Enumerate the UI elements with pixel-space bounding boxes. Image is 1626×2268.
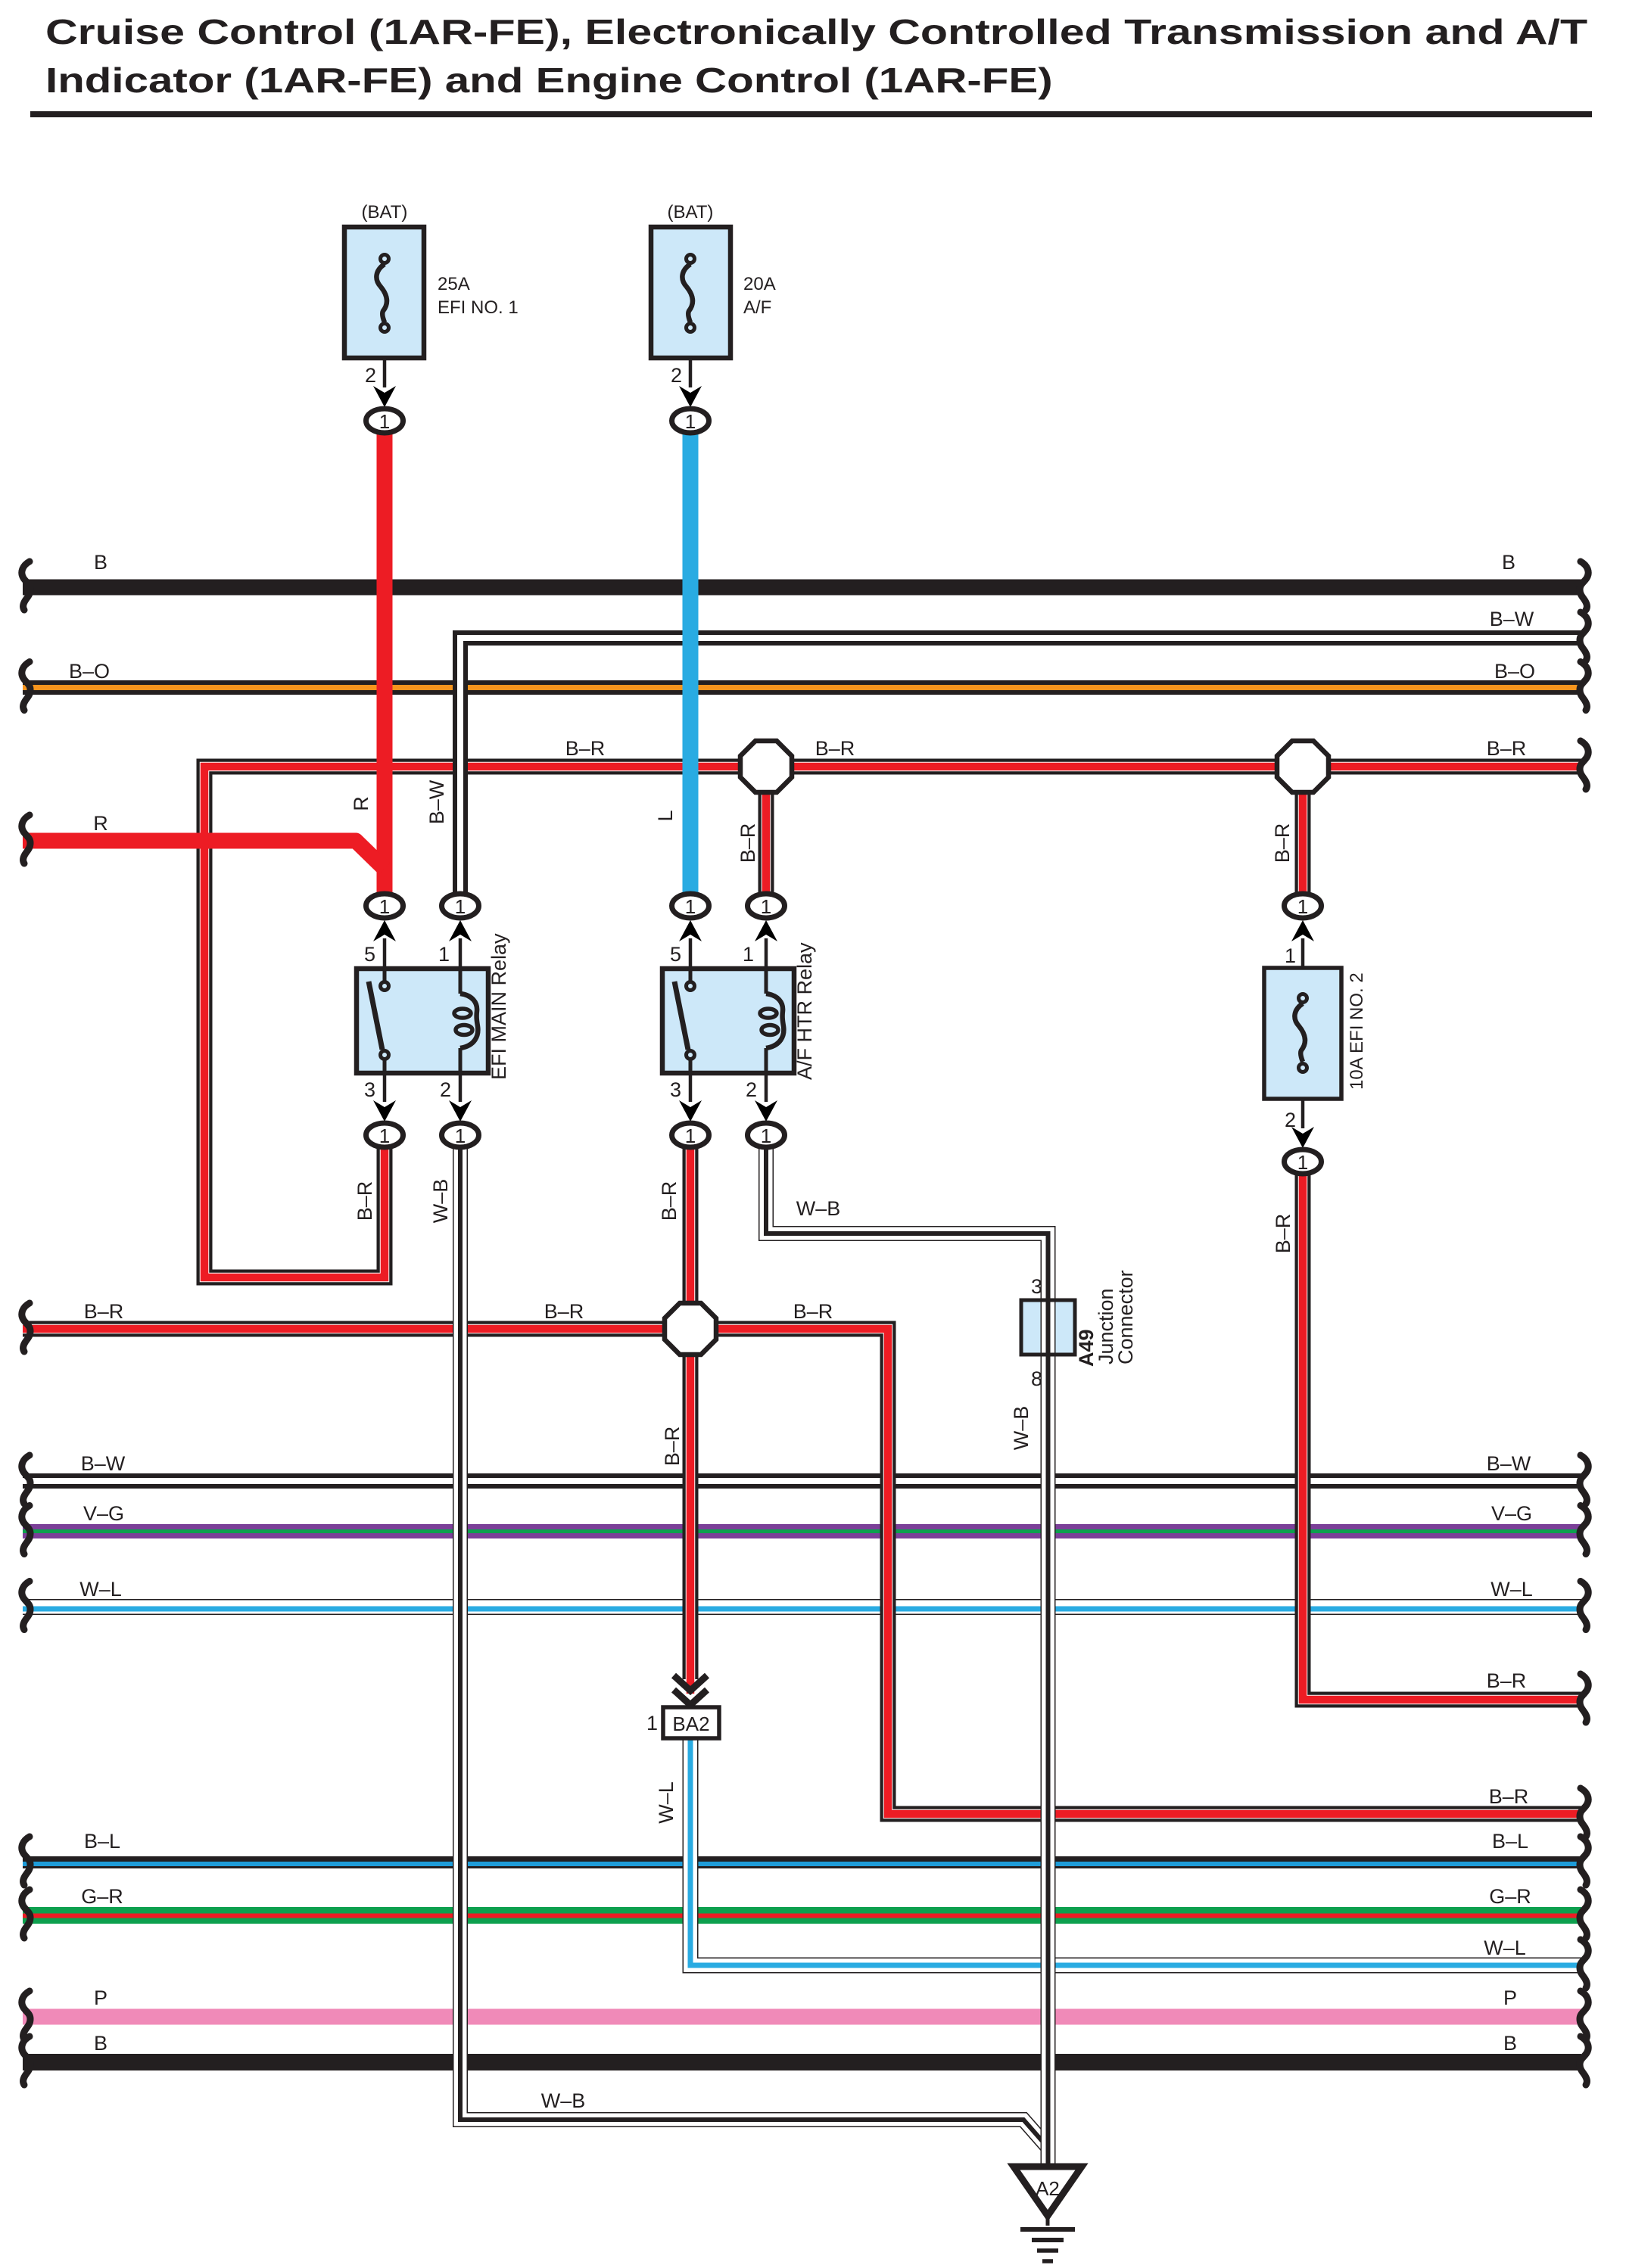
svg-text:(BAT): (BAT): [668, 202, 714, 222]
svg-text:B: B: [94, 2032, 107, 2055]
wire B-R fuse EFI NO.2 to right edge: [1303, 1171, 1581, 1700]
pin lines and arrows fuse1 output: [373, 358, 396, 407]
bus label W-L left: [79, 1578, 122, 1601]
svg-text:W–B: W–B: [1010, 1406, 1033, 1451]
bus label B bottom left: [94, 2032, 107, 2055]
svg-text:W–L: W–L: [1490, 1578, 1533, 1601]
junction connector A49 border redraw: [1021, 1300, 1075, 1355]
wire tag L rotated: [654, 810, 677, 821]
pin number labels fuse EFI NO.2: [1285, 944, 1296, 1131]
svg-text:B–R: B–R: [544, 1300, 584, 1323]
junction octagon 2: [1277, 741, 1329, 792]
wire R from fuse EFI NO.1 down to relay1 pin 5: [377, 432, 393, 897]
arrow into fuse EFI NO.2: [1291, 920, 1314, 968]
svg-text:B: B: [1502, 551, 1515, 574]
svg-text:8: 8: [1031, 1367, 1042, 1390]
bus label B-O right: [1494, 660, 1535, 683]
svg-text:B–W: B–W: [1490, 608, 1534, 630]
svg-text:1: 1: [1297, 1151, 1308, 1174]
pin lines and arrows fuse2 output: [679, 358, 702, 407]
bus label B-R 1 right: [1487, 737, 1527, 760]
svg-text:R: R: [93, 812, 108, 835]
svg-text:B–L: B–L: [1492, 1830, 1528, 1853]
svg-text:W–B: W–B: [796, 1197, 841, 1220]
wire tag B-R rotated relay1 pin3: [354, 1181, 376, 1221]
bus label R left: [93, 812, 108, 835]
bus label W-L right y2597: [1484, 1937, 1526, 1959]
bus label B-R right y2246: [1487, 1669, 1527, 1692]
svg-text:W–B: W–B: [429, 1179, 452, 1224]
svg-text:1: 1: [379, 1125, 390, 1147]
wire bus W-L: [23, 1607, 1581, 1610]
svg-text:BA2: BA2: [672, 1713, 709, 1735]
rotated name EFI MAIN Relay: [487, 933, 510, 1080]
label W-B bottom: [541, 2089, 586, 2112]
fuse 10A EFI NO.2: [1264, 968, 1341, 1099]
bus label B-R 2 right of octagon: [793, 1300, 833, 1323]
connector ovals row: relay bottom side: [366, 1123, 785, 1147]
label W-B near A49: [796, 1197, 841, 1220]
svg-text:EFI NO. 1: EFI NO. 1: [438, 297, 519, 318]
bus label B-O left: [69, 660, 110, 683]
svg-text:B–R: B–R: [354, 1181, 376, 1221]
wire bus B (top): [23, 580, 1581, 596]
svg-text:B–R: B–R: [793, 1300, 833, 1323]
svg-text:B–R: B–R: [1271, 823, 1294, 863]
bus label B bottom right: [1503, 2032, 1517, 2055]
svg-text:A2: A2: [1036, 2177, 1060, 2200]
bus label B-W lower left: [81, 1452, 126, 1475]
svg-text:1: 1: [1285, 944, 1296, 967]
arrows into relay1 top pins: [373, 920, 472, 969]
arrows out of relay1 bottom pins: [373, 1073, 472, 1122]
svg-text:1: 1: [761, 895, 771, 918]
page connector double arrow to BA2: [674, 1675, 707, 1705]
svg-text:(BAT): (BAT): [362, 202, 408, 222]
svg-text:A/F HTR Relay: A/F HTR Relay: [793, 942, 816, 1080]
svg-text:B–W: B–W: [425, 779, 448, 824]
bus label B-R right y2397: [1489, 1785, 1529, 1808]
wire tag B-W rotated: [425, 779, 448, 824]
svg-text:Indicator (1AR-FE) and Engine: Indicator (1AR-FE) and Engine Control (1…: [45, 61, 1053, 101]
fuse 25A EFI NO.1: [344, 202, 519, 358]
svg-text:2: 2: [1285, 1109, 1296, 1131]
svg-text:25A: 25A: [438, 274, 470, 294]
wire tag B-R rotated octagon1: [737, 823, 759, 863]
svg-text:3: 3: [364, 1078, 375, 1101]
arrows into relay2 top pins: [679, 920, 777, 969]
bus label B-R 1a: [565, 737, 606, 760]
svg-text:1: 1: [685, 1125, 696, 1147]
rotated name A/F HTR Relay: [793, 942, 816, 1080]
svg-text:2: 2: [440, 1078, 451, 1101]
svg-text:B–W: B–W: [1487, 1452, 1531, 1475]
svg-text:B–L: B–L: [84, 1830, 120, 1853]
wire tag B-R rotated relay2 pin3: [658, 1181, 681, 1221]
svg-text:5: 5: [670, 943, 681, 966]
svg-text:Cruise Control (1AR-FE), Elect: Cruise Control (1AR-FE), Electronically …: [45, 13, 1587, 51]
svg-text:B–R: B–R: [1489, 1785, 1529, 1808]
wire tag B-R rotated below octagon3: [661, 1426, 684, 1467]
svg-text:W–B: W–B: [541, 2089, 586, 2112]
svg-text:Connector: Connector: [1114, 1270, 1137, 1364]
svg-text:2: 2: [746, 1078, 757, 1101]
svg-text:1: 1: [646, 1712, 658, 1734]
wire R from left edge joining vertical: [23, 841, 385, 869]
bus label V-G left: [83, 1502, 124, 1525]
bus label P right: [1503, 1986, 1517, 2009]
svg-text:B–O: B–O: [69, 660, 110, 683]
svg-text:R: R: [350, 796, 372, 811]
wire tag W-B rotated below A49: [1010, 1406, 1033, 1451]
svg-text:1: 1: [379, 410, 390, 433]
svg-text:B–W: B–W: [81, 1452, 126, 1475]
relay EFI MAIN Relay: [357, 969, 488, 1073]
wire B-R bus 2: [23, 1329, 1581, 1814]
bus label B-W lower right: [1487, 1452, 1531, 1475]
svg-text:B–R: B–R: [1487, 737, 1527, 760]
bus label B-L right: [1492, 1830, 1528, 1853]
connector BA2 box: [663, 1707, 719, 1738]
svg-text:W–L: W–L: [79, 1578, 122, 1601]
wire B-W vertical and bus to right edge: [460, 638, 1581, 901]
svg-text:1: 1: [743, 943, 754, 966]
svg-text:B–R: B–R: [84, 1300, 124, 1323]
wire tag B-R rotated below fuse EFI NO.2: [1272, 1214, 1294, 1254]
svg-text:1: 1: [685, 410, 696, 433]
svg-text:1: 1: [438, 943, 450, 966]
bus label B-R 2 left: [84, 1300, 124, 1323]
bus label P left: [94, 1986, 107, 2009]
bus label V-G right: [1491, 1502, 1532, 1525]
bus label B-W right: [1490, 608, 1534, 630]
svg-text:B–R: B–R: [737, 823, 759, 863]
wire bus V-G: [23, 1524, 1581, 1538]
svg-text:V–G: V–G: [1491, 1502, 1532, 1525]
wire tag B-R rotated octagon2: [1271, 823, 1294, 863]
wire B-R octagon1 to relay2 pin1: [758, 767, 774, 897]
svg-text:3: 3: [1031, 1275, 1042, 1298]
pin number labels A49: [1031, 1275, 1042, 1390]
bus label G-R left: [81, 1885, 123, 1908]
wire tag R rotated: [350, 796, 372, 811]
wire W-B from relay2 pin2 through A49 to ground: [766, 1144, 1048, 2164]
svg-text:L: L: [654, 810, 677, 821]
wire bus B (bottom): [23, 2054, 1581, 2070]
bus label W-L right: [1490, 1578, 1533, 1601]
wire tag W-L rotated below BA2: [655, 1781, 677, 1824]
wire bus P: [23, 2009, 1581, 2025]
svg-text:1: 1: [1297, 895, 1308, 918]
wire B-R octagon2 to fuse EFI NO.2: [1295, 767, 1311, 897]
wire B-R bus 1 with loop to EFI MAIN relay pin 3: [204, 767, 1581, 1277]
wire W-L from BA2 to right edge: [690, 1738, 1581, 1965]
pin number labels relay2: [670, 943, 757, 1101]
wire tag W-B rotated relay1 pin2: [429, 1179, 452, 1224]
rotated name A49 Junction Connector: [1075, 1270, 1137, 1367]
wire W-B from relay1 pin2 to ground run: [460, 1144, 1048, 2148]
svg-text:B: B: [94, 551, 107, 574]
svg-text:1: 1: [455, 895, 466, 918]
ground A2: [1014, 2167, 1082, 2261]
svg-text:5: 5: [364, 943, 375, 966]
svg-text:B: B: [1503, 2032, 1517, 2055]
svg-text:V–G: V–G: [83, 1502, 124, 1525]
bus label B-R 1b: [815, 737, 855, 760]
svg-text:G–R: G–R: [81, 1885, 123, 1908]
arrow out of fuse EFI NO.2 bottom: [1291, 1099, 1314, 1148]
pin number labels fuses top: [365, 364, 682, 387]
wire bus B-O: [23, 680, 1581, 695]
svg-text:B–R: B–R: [1487, 1669, 1527, 1692]
connector oval fuse EFI NO.2 bottom: [1285, 1150, 1322, 1174]
wire B-R relay2 pin3 to octagon3 to BA2: [683, 1144, 699, 1694]
bus label B top right: [1502, 551, 1515, 574]
arrows out of relay2 bottom pins: [679, 1073, 777, 1122]
svg-text:20A: 20A: [743, 274, 776, 294]
title: [30, 13, 1592, 117]
connector ovals row: fuse outputs: [366, 409, 709, 433]
svg-text:G–R: G–R: [1489, 1885, 1531, 1908]
svg-text:2: 2: [365, 364, 376, 387]
svg-text:B–R: B–R: [658, 1181, 681, 1221]
pin 1 label of BA2: [646, 1712, 658, 1734]
svg-text:B–O: B–O: [1494, 660, 1535, 683]
wire L from fuse A/F down to relay2 pin 5: [683, 432, 699, 897]
right edge wire end curls: [1580, 562, 1588, 2085]
svg-text:1: 1: [761, 1125, 771, 1147]
svg-text:2: 2: [671, 364, 682, 387]
wire bus B-L: [23, 1862, 1581, 1864]
connector ovals row: relay top side: [366, 894, 1322, 918]
svg-text:1: 1: [379, 895, 390, 918]
rotated name 10A EFI NO. 2: [1347, 972, 1367, 1090]
svg-text:B–R: B–R: [815, 737, 855, 760]
svg-text:B–R: B–R: [565, 737, 606, 760]
bus label G-R right: [1489, 1885, 1531, 1908]
svg-text:W–L: W–L: [1484, 1937, 1526, 1959]
svg-text:P: P: [94, 1986, 107, 2009]
fuse 20A A/F: [651, 202, 776, 358]
svg-text:A/F: A/F: [743, 297, 771, 318]
junction connector A49 body: [1021, 1300, 1075, 1355]
wire bus B-W (lower): [23, 1473, 1581, 1489]
svg-text:1: 1: [455, 1125, 466, 1147]
junction octagon 3: [665, 1303, 716, 1355]
relay A/F HTR Relay: [662, 969, 794, 1073]
pin number labels relay1: [364, 943, 451, 1101]
svg-text:B–R: B–R: [661, 1426, 684, 1467]
svg-text:EFI MAIN Relay: EFI MAIN Relay: [487, 933, 510, 1080]
wire bus G-R: [23, 1907, 1581, 1924]
svg-text:10A EFI NO. 2: 10A EFI NO. 2: [1347, 972, 1367, 1090]
bus label B-L left: [84, 1830, 120, 1853]
svg-text:3: 3: [670, 1078, 681, 1101]
bus label B-R 2 mid: [544, 1300, 584, 1323]
bus label B top left: [94, 551, 107, 574]
junction octagon 1: [740, 741, 792, 792]
svg-text:W–L: W–L: [655, 1781, 677, 1824]
svg-text:B–R: B–R: [1272, 1214, 1294, 1254]
svg-text:P: P: [1503, 1986, 1517, 2009]
svg-text:1: 1: [685, 895, 696, 918]
left edge wire end curls: [22, 562, 30, 2085]
